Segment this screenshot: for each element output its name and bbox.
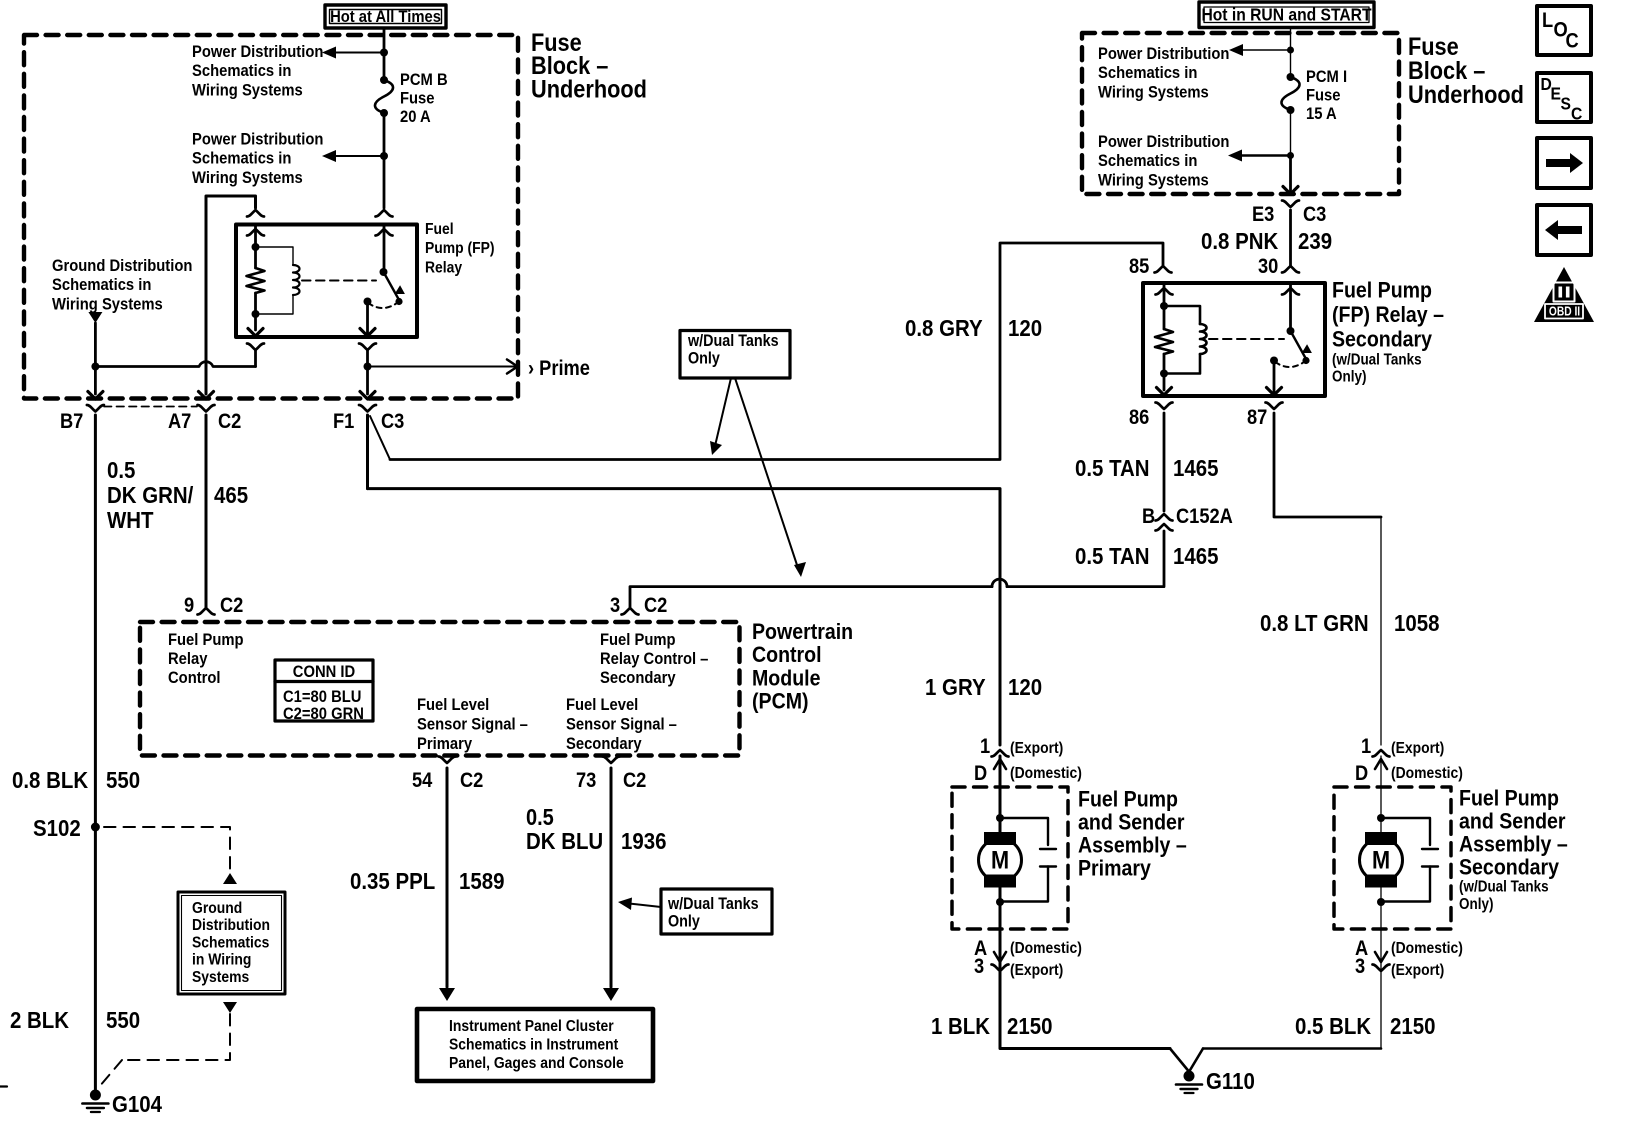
svg-text:M: M [991, 846, 1009, 874]
label 0.5 DK GRN/ WHT [107, 457, 193, 534]
pointer arrows from w/Dual Tanks Only box [710, 378, 806, 577]
inductor coil L2 inside relay2 [1200, 324, 1207, 354]
svg-text:3: 3 [974, 955, 984, 978]
svg-text:0.5: 0.5 [107, 457, 135, 484]
svg-text:w/Dual Tanks: w/Dual Tanks [687, 332, 779, 350]
svg-text:Hot at All Times: Hot at All Times [330, 8, 441, 26]
svg-text:C3: C3 [1303, 203, 1326, 226]
svg-text:Schematics in: Schematics in [1098, 152, 1197, 170]
label 87 [1247, 406, 1267, 429]
fuse PCM I 15A symbol [1281, 73, 1299, 114]
relay2 coil pin chevron inside box [1156, 288, 1173, 295]
junction dot right tap 2 [1287, 152, 1294, 159]
label Powertrain Control Module (PCM) [752, 620, 853, 714]
wire 0.8 LT GRN 1058 pin 87 to secondary pump [1274, 413, 1381, 745]
arrow A7 at fuse block boundary [199, 392, 214, 400]
svg-text:0.8 GRY: 0.8 GRY [905, 315, 983, 342]
relay2 coil top junction dot [1160, 302, 1168, 310]
power label Hot in RUN and START [1199, 2, 1374, 28]
svg-text:Underhood: Underhood [531, 75, 647, 103]
label C2 (pin 9) [220, 594, 243, 617]
junction dot B7/bus [91, 363, 99, 371]
label (Export) secondary bottom [1391, 961, 1444, 979]
svg-text:C2: C2 [644, 594, 667, 617]
label 2 BLK [10, 1007, 69, 1034]
relay1 coil parallel branch (thin wiring) [256, 247, 294, 314]
fuse block underhood (right) title [1408, 33, 1524, 109]
label 1 (primary pin) [980, 735, 990, 758]
svg-text:PCM I: PCM I [1306, 68, 1347, 86]
svg-text:A7: A7 [168, 410, 191, 433]
svg-text:86: 86 [1129, 406, 1149, 429]
label S102 [33, 815, 81, 842]
fuel level sender primary [1000, 818, 1056, 902]
arrow to Power Distribution (lower left) [322, 150, 384, 162]
wire 0.5 DK BLU 1936 PCM 73 to cluster [603, 768, 619, 1001]
ground symbol G110 [1176, 1071, 1202, 1094]
relay1 switch travel arc dashed [368, 302, 400, 309]
svg-text:0.8 LT GRN: 0.8 LT GRN [1260, 610, 1369, 637]
svg-text:PCM B: PCM B [400, 71, 448, 89]
label 1 (secondary pin) [1361, 735, 1371, 758]
svg-text:Hot in RUN and START: Hot in RUN and START [1201, 4, 1372, 24]
svg-text:and Sender: and Sender [1459, 809, 1566, 834]
label 3 (primary pin) [974, 955, 984, 978]
svg-text:DK GRN/: DK GRN/ [107, 482, 193, 509]
svg-text:Control: Control [168, 669, 221, 687]
svg-text:C2: C2 [220, 594, 243, 617]
relay2 coil exit arrow [1157, 388, 1172, 396]
label Ground Distribution Schematics (left) [52, 257, 192, 314]
connector chevron A7 [198, 405, 215, 412]
relay1 switch output contact dot [364, 298, 372, 306]
wire 1 BLK 2150 primary pump to G110 [1000, 971, 1170, 1049]
svg-text:1: 1 [980, 735, 990, 758]
svg-text:120: 120 [1008, 315, 1042, 342]
connector chevron above relay switch pin [376, 210, 393, 217]
label (Domestic) secondary top [1391, 764, 1463, 782]
label PCM I Fuse 15 A [1306, 68, 1347, 123]
svg-text:73: 73 [576, 769, 596, 792]
svg-text:Primary: Primary [1078, 856, 1151, 881]
powertrain control module dashed box [140, 622, 740, 756]
label w/Dual Tanks Only (upper) box [680, 331, 790, 379]
svg-text:1465: 1465 [1173, 543, 1218, 570]
svg-text:Fuel Level: Fuel Level [417, 696, 489, 714]
dashed link S102 to ground distribution box [104, 827, 230, 871]
wire to prime connector [368, 360, 518, 374]
connector chevron PCM pin 9 [198, 608, 215, 615]
label B (C152A) [1142, 505, 1155, 528]
svg-text:S102: S102 [33, 815, 81, 842]
svg-text:54: 54 [412, 769, 432, 792]
junction dot right tap 1 [1287, 47, 1294, 54]
label 2150 (secondary) [1390, 1013, 1435, 1040]
svg-text:D: D [974, 762, 987, 785]
svg-text:Panel, Gages and Console: Panel, Gages and Console [449, 1054, 624, 1072]
label PCM B Fuse 20 A [400, 71, 448, 126]
label G104 [112, 1091, 163, 1118]
svg-text:Power Distribution: Power Distribution [192, 131, 323, 149]
connector C152A inline chevrons [1156, 514, 1173, 531]
svg-text:Sensor Signal –: Sensor Signal – [417, 716, 528, 734]
svg-text:and Sender: and Sender [1078, 810, 1185, 835]
label C2 (pin 73) [623, 769, 646, 792]
label B7 [60, 410, 83, 433]
wire fuse output down to FP relay pin [383, 156, 386, 208]
fuse PCM B 20A symbol [375, 76, 393, 117]
label 0.8 LT GRN [1260, 610, 1369, 637]
label C3 (E3) [1303, 203, 1326, 226]
relay2 resistor lower wire [1163, 354, 1166, 390]
svg-text:Wiring Systems: Wiring Systems [1098, 172, 1209, 190]
svg-text:20 A: 20 A [400, 108, 431, 126]
svg-text:Assembly –: Assembly – [1459, 832, 1568, 857]
svg-text:CONN ID: CONN ID [293, 663, 355, 681]
label Power Distribution Schematics (lower right) [1098, 133, 1229, 190]
svg-text:0.8 BLK: 0.8 BLK [12, 767, 88, 794]
label C3 (F1) [381, 410, 404, 433]
connector pin 1/D primary pump [992, 750, 1009, 769]
label 1465 (lower) [1173, 543, 1218, 570]
wire 1 GRY 120 (F1 to primary pump) [368, 489, 1001, 745]
svg-text:(Export): (Export) [1010, 739, 1063, 757]
svg-text:(w/Dual Tanks: (w/Dual Tanks [1332, 352, 1422, 369]
svg-text:WHT: WHT [107, 507, 154, 534]
svg-text:DK BLU: DK BLU [526, 828, 603, 855]
arrow to Power Distribution (upper right) [1229, 44, 1291, 56]
svg-text:C2=80 GRN: C2=80 GRN [283, 705, 364, 723]
label 1465 (upper) [1173, 455, 1218, 482]
svg-text:1936: 1936 [621, 828, 666, 855]
wire bus from B7 to relay1 coil (hop over A7 wire) [95, 362, 255, 367]
svg-text:Systems: Systems [192, 968, 249, 986]
svg-text:C152A: C152A [1176, 505, 1233, 528]
svg-text:B: B [1142, 505, 1155, 528]
svg-text:Fuel Pump: Fuel Pump [1332, 278, 1432, 303]
connector pin A/3 secondary pump [1373, 952, 1390, 971]
svg-text:(FP) Relay –: (FP) Relay – [1332, 303, 1444, 328]
label 2150 (primary) [1007, 1013, 1052, 1040]
svg-text:Fuel Pump: Fuel Pump [1459, 786, 1559, 811]
svg-text:Underhood: Underhood [1408, 81, 1524, 109]
svg-text:1 BLK: 1 BLK [931, 1013, 990, 1040]
ground bus diagonals to G110 [1170, 1049, 1203, 1072]
svg-text:(Domestic): (Domestic) [1010, 764, 1082, 782]
chevron below relay2 pin 87 [1266, 403, 1283, 410]
svg-text:in Wiring: in Wiring [192, 951, 251, 969]
svg-text:C: C [1571, 103, 1582, 123]
svg-text:Power Distribution: Power Distribution [192, 43, 323, 61]
icon OBD II triangle [1534, 267, 1594, 322]
connector chevron PCM pin 73 [603, 757, 620, 764]
motor M2 secondary fuel pump [1360, 832, 1403, 888]
relay1 switch exit arrow [360, 329, 375, 337]
label Fuel Pump Relay Control Secondary [600, 631, 709, 687]
label 239 [1298, 228, 1332, 255]
svg-text:30: 30 [1258, 255, 1278, 278]
chevron below relay2 pin 86 [1156, 403, 1173, 410]
label 0.5 DK BLU [526, 804, 603, 855]
connector chevron above relay2 pin 85 [1155, 266, 1172, 273]
connector pin A/3 primary pump [992, 952, 1009, 971]
svg-text:9: 9 [184, 594, 194, 617]
relay2 switch travel arc dashed [1275, 361, 1307, 368]
inductor coil L1 inside relay1 [293, 265, 300, 295]
svg-text:120: 120 [1008, 674, 1042, 701]
label (Export) secondary top [1391, 739, 1444, 757]
junction dot at power distribution tap 1 [380, 49, 388, 57]
svg-text:Powertrain: Powertrain [752, 620, 853, 645]
wire 550 S102 to G104 [94, 827, 97, 1090]
label w/Dual Tanks Only (lower) box [661, 889, 772, 934]
wire relay1 coil exit down to B7 bus [254, 350, 257, 367]
arrow to Power Distribution (lower right) [1228, 150, 1290, 162]
label 1936 [621, 828, 666, 855]
relay2 switch input wire [1289, 283, 1292, 331]
wire PCM pin3 to C152A riser (hop over 1 GRY) [630, 531, 1164, 608]
relay2 mechanical link dashed [1209, 338, 1284, 340]
svg-text:239: 239 [1298, 228, 1332, 255]
wire 0.8 PNK 239 E3 to relay2 pin 30 [1289, 210, 1292, 266]
label D (primary pin) [974, 762, 987, 785]
label Fuel Pump Relay Control [168, 631, 244, 687]
label Power Distribution Schematics (lower left) [192, 131, 323, 188]
connector C2 dashed line B7-A7 [104, 406, 197, 408]
wire junction to E3 exit [1289, 156, 1292, 195]
svg-text:1058: 1058 [1394, 610, 1439, 637]
svg-text:1: 1 [1361, 735, 1371, 758]
fuse block underhood (left) title [531, 29, 647, 103]
svg-text:E3: E3 [1252, 203, 1274, 226]
svg-text:C1=80 BLU: C1=80 BLU [283, 688, 361, 706]
instrument panel cluster box [417, 1009, 653, 1081]
label 3 (secondary pin) [1355, 955, 1365, 978]
svg-text:Wiring Systems: Wiring Systems [192, 169, 303, 187]
svg-text:F1: F1 [333, 410, 354, 433]
relay1 coil top junction dot [252, 243, 260, 251]
svg-text:Relay: Relay [168, 650, 208, 668]
svg-text:85: 85 [1129, 255, 1149, 278]
wire loop from relay coil to A7 branch [206, 196, 256, 394]
svg-text:Wiring Systems: Wiring Systems [52, 296, 163, 314]
relay2 switch blade [1291, 331, 1312, 358]
svg-text:1465: 1465 [1173, 455, 1218, 482]
icon left arrow box [1537, 205, 1591, 255]
label A (secondary pin) [1355, 937, 1368, 960]
label Power Distribution Schematics (upper left) [192, 43, 323, 100]
secondary pump motor bottom wire [1380, 882, 1382, 971]
relay1 switch output wire [366, 302, 369, 336]
svg-text:87: 87 [1247, 406, 1267, 429]
label 0.5 BLK [1295, 1013, 1371, 1040]
relay2 coil bottom junction dot [1160, 370, 1168, 378]
svg-text:Fuel Pump: Fuel Pump [168, 631, 244, 649]
primary pump feed wire [999, 756, 1002, 838]
svg-text:S: S [1561, 93, 1571, 113]
wire from Hot at All Times to junction [383, 28, 386, 53]
label A7 [168, 410, 191, 433]
svg-text:(w/Dual Tanks: (w/Dual Tanks [1459, 879, 1549, 896]
svg-text:550: 550 [106, 767, 140, 794]
label Ground Distribution box text [192, 899, 270, 986]
svg-text:C2: C2 [623, 769, 646, 792]
label 1058 [1394, 610, 1439, 637]
svg-text:3: 3 [1355, 955, 1365, 978]
svg-text:Ground Distribution: Ground Distribution [52, 257, 192, 275]
svg-text:Control: Control [752, 643, 822, 668]
fuel pump and sender assembly primary dashed box [952, 787, 1068, 929]
arrow to Power Distribution (upper left) [322, 47, 384, 59]
svg-text:Relay: Relay [425, 259, 463, 277]
wire fuse to junction (right, thin) [1290, 110, 1292, 156]
svg-text:Schematics in: Schematics in [192, 150, 291, 168]
svg-text:2150: 2150 [1007, 1013, 1052, 1040]
connector chevron PCM pin 3 [622, 608, 639, 615]
chevron below relay1 switch exit [359, 344, 376, 351]
relay2 switch output contact dot [1270, 357, 1278, 365]
label Fuel Pump (FP) Relay Secondary [1332, 278, 1444, 385]
svg-text:Fuel Pump: Fuel Pump [1078, 787, 1178, 812]
relay2 switch pin chevron inside box [1282, 288, 1299, 295]
connector chevron B7 [87, 405, 104, 412]
svg-text:Only): Only) [1332, 369, 1367, 386]
resistor inside relay1 [247, 268, 265, 293]
svg-text:0.5 BLK: 0.5 BLK [1295, 1013, 1371, 1040]
svg-text:Instrument Panel Cluster: Instrument Panel Cluster [449, 1017, 614, 1035]
label 0.8 GRY [905, 315, 983, 342]
svg-text:B7: B7 [60, 410, 83, 433]
label G110 [1206, 1068, 1255, 1095]
wire 0.5 BLK 2150 secondary pump to G110 [1203, 971, 1381, 1049]
wire 465 from A7 to PCM pin 9 [205, 415, 208, 608]
svg-text:G110: G110 [1206, 1068, 1255, 1095]
primary pump motor bottom wire [999, 882, 1002, 971]
relay1 switch pivot dot [380, 268, 388, 276]
label 1 GRY [925, 674, 986, 701]
pointer arrow from lower w/Dual Tanks Only box [618, 898, 661, 911]
wire F1 main down [366, 415, 369, 489]
connector chevron E3 [1282, 201, 1299, 208]
svg-text:550: 550 [106, 1007, 140, 1034]
label Fuel Pump and Sender Assembly Secondary [1459, 786, 1568, 913]
wire B7 upper segment [94, 323, 97, 394]
splice S102 dot [91, 823, 100, 832]
svg-text:(Export): (Export) [1391, 961, 1444, 979]
label F1 [333, 410, 354, 433]
fuel level sender secondary [1381, 818, 1438, 902]
secondary pump bottom junction dot [1377, 898, 1385, 906]
chevron below relay1 coil exit [247, 344, 264, 351]
relay1 coil pin chevron inside box [247, 229, 264, 236]
relay1 switch input wire [383, 225, 386, 273]
svg-text:Secondary: Secondary [1459, 855, 1559, 880]
label (Export) primary top [1010, 739, 1063, 757]
svg-text:Secondary: Secondary [566, 735, 642, 753]
primary pump top junction dot [996, 814, 1004, 822]
relay2 switch blade end dot [1302, 357, 1309, 364]
connector chevron F1 [359, 405, 376, 412]
stray mark left edge [0, 1085, 7, 1087]
resistor inside relay2 [1155, 329, 1173, 354]
wire relay1 switch exit to F1 [366, 350, 369, 394]
svg-text:0.35 PPL: 0.35 PPL [350, 868, 435, 895]
svg-text:(Domestic): (Domestic) [1391, 939, 1463, 957]
relay2 switch exit arrow [1267, 388, 1282, 396]
svg-text:G104: G104 [112, 1091, 163, 1118]
svg-text:0.8 PNK: 0.8 PNK [1201, 228, 1278, 255]
svg-text:1589: 1589 [459, 868, 504, 895]
svg-text:Schematics in: Schematics in [192, 62, 291, 80]
svg-text:Schematics: Schematics [192, 934, 269, 952]
svg-text:0.5 TAN: 0.5 TAN [1075, 543, 1150, 570]
svg-text:C2: C2 [218, 410, 241, 433]
label 85 [1129, 255, 1149, 278]
label E3 [1252, 203, 1274, 226]
ground symbol G104 [82, 1090, 108, 1113]
label C2 (A7) [218, 410, 241, 433]
svg-text:Wiring Systems: Wiring Systems [192, 82, 303, 100]
svg-text:Fuse: Fuse [1306, 87, 1341, 105]
junction dot at power distribution tap 2 [380, 152, 388, 160]
label 0.8 BLK [12, 767, 88, 794]
svg-text:M: M [1372, 846, 1390, 874]
relay1 coil exit arrow [248, 329, 263, 337]
svg-text:Power Distribution: Power Distribution [1098, 45, 1229, 63]
arrow into ground distribution box (top) [223, 873, 237, 884]
svg-text:Secondary: Secondary [600, 669, 676, 687]
svg-text:Schematics in: Schematics in [52, 276, 151, 294]
relay2 coil pin wire [1163, 283, 1166, 329]
svg-text:Pump (FP): Pump (FP) [425, 239, 495, 257]
label 54 [412, 769, 432, 792]
label Instrument Panel Cluster box text [449, 1017, 624, 1072]
svg-text:Assembly –: Assembly – [1078, 833, 1187, 858]
label 86 [1129, 406, 1149, 429]
fuel pump and sender assembly secondary dashed box [1334, 787, 1451, 929]
icon right arrow box [1537, 138, 1591, 188]
label C2 (pin 3) [644, 594, 667, 617]
svg-text:Primary: Primary [417, 735, 472, 753]
power label Hot at All Times [325, 5, 446, 28]
dashed link ground distribution box to G104 [99, 1014, 230, 1087]
label 0.8 PNK [1201, 228, 1278, 255]
label 465 [214, 482, 248, 509]
svg-text:Only): Only) [1459, 896, 1494, 913]
wire 550 B7 to S102 [94, 415, 97, 827]
svg-text:w/Dual Tanks: w/Dual Tanks [667, 895, 759, 913]
svg-text:15 A: 15 A [1306, 105, 1337, 123]
wire F1 diagonal branch to 0.8 GRY [370, 416, 390, 460]
svg-text:Schematics in: Schematics in [1098, 64, 1197, 82]
connector chevron above relay coil pin [247, 210, 264, 217]
svg-text:L: L [1542, 9, 1553, 32]
relay1 mechanical link dashed [302, 280, 376, 282]
label C1=80 BLU [283, 688, 361, 706]
svg-text:Only: Only [688, 350, 720, 368]
svg-text:Power Distribution: Power Distribution [1098, 133, 1229, 151]
label C152A [1176, 505, 1233, 528]
svg-text:0.5 TAN: 0.5 TAN [1075, 455, 1150, 482]
svg-text:C3: C3 [381, 410, 404, 433]
svg-text:0.5: 0.5 [526, 804, 554, 831]
label 120 (0.8 GRY) [1008, 315, 1042, 342]
label C2=80 GRN [283, 705, 364, 723]
label Power Distribution Schematics (upper right) [1098, 45, 1229, 102]
label Fuel Level Sensor Signal Primary [417, 696, 528, 753]
wire Hot in RUN to junction (thin) [1290, 28, 1292, 78]
label (Domestic) primary top [1010, 764, 1082, 782]
